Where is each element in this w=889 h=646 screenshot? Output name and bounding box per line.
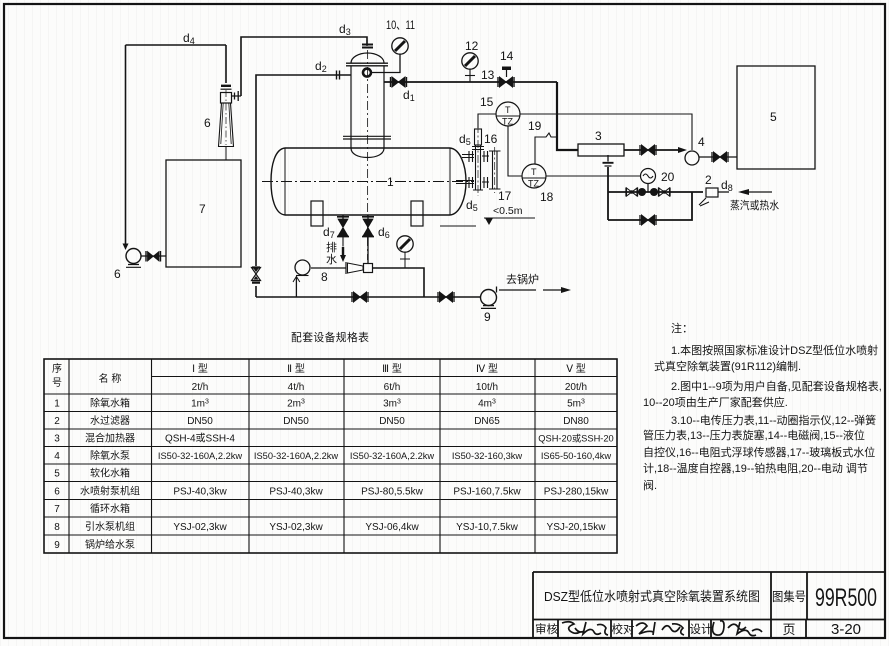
wire control valve line [608,191,703,193]
wire pump8 suction branch [293,277,300,298]
svg-text:混合加热器: 混合加热器 [85,432,135,445]
bypass valve [640,215,656,225]
wire level instrument to pump4 [520,114,692,150]
pressure gauge 10,11 [372,18,416,73]
wire steam riser [607,167,609,220]
svg-text:6: 6 [54,487,60,498]
svg-text:18: 18 [540,190,554,204]
svg-text:PSJ-40,3kw: PSJ-40,3kw [173,487,227,498]
temperature controller 18 [522,164,554,204]
circulating tank 7 [166,160,241,267]
svg-text:PSJ-280,15kw: PSJ-280,15kw [544,487,609,498]
svg-text:1: 1 [387,175,394,189]
pressure gauge 12 with cock 13 [462,39,495,82]
svg-text:d3: d3 [339,22,351,37]
svg-text:d5: d5 [459,132,471,147]
valve d7 [323,217,349,240]
wire ejector to tank7 [225,147,227,161]
drain arrow under d7 [340,247,346,262]
wire gauge8 stem [400,252,410,268]
svg-text:循环水箱: 循环水箱 [90,502,130,515]
svg-text:TZ: TZ [528,179,539,189]
wire pump9 discharge [499,289,536,291]
svg-text:TZ: TZ [502,117,513,127]
svg-text:水喷射泵机组: 水喷射泵机组 [80,485,140,498]
wire pump6 to tank7 [141,255,166,257]
svg-text:引水泵机组: 引水泵机组 [85,520,135,533]
wire d4 horizontal [126,44,227,46]
svg-text:7: 7 [54,504,60,515]
svg-text:16: 16 [484,132,498,146]
gauge glass 17 [456,147,512,213]
steam label [730,198,779,212]
valve on left drop [252,268,261,283]
notes text [643,321,882,492]
deaerator tank 1 [262,148,474,215]
svg-text:DN65: DN65 [474,416,500,427]
svg-text:页: 页 [782,622,795,637]
svg-text:3m3: 3m3 [383,399,401,410]
svg-text:计,18--温度自控器,19--铂热电阻,20--电动 调节: 计,18--温度自控器,19--铂热电阻,20--电动 调节 [643,461,868,475]
union on d2 [315,59,340,80]
boiler feed pump 9 [481,273,540,324]
wire d6 drain [367,215,369,264]
wire pump4 to tank5 [699,156,737,158]
svg-text:YSJ-02,3kw: YSJ-02,3kw [269,522,323,533]
svg-text:YSJ-06,4kw: YSJ-06,4kw [365,522,419,533]
svg-text:式真空除氧装置(91R112)编制.: 式真空除氧装置(91R112)编制. [654,359,801,373]
title block [533,572,885,638]
svg-text:DSZ型低位水喷射式真空除氧装置系统图: DSZ型低位水喷射式真空除氧装置系统图 [544,589,760,604]
water filter 2 [699,173,733,206]
svg-text:3-20: 3-20 [831,621,861,638]
wire d3 from ejector to column top [241,37,367,96]
valve pump6 outlet [146,251,161,262]
svg-text:PSJ-80,5.5kw: PSJ-80,5.5kw [361,487,423,498]
solenoid valve 14 [498,49,514,87]
svg-text:图集号: 图集号 [772,589,806,604]
svg-text:YSJ-02,3kw: YSJ-02,3kw [173,522,227,533]
svg-text:号: 号 [52,377,62,389]
svg-text:注：: 注： [671,321,693,335]
svg-text:管压力表,13--压力表旋塞,14--电磁阀,15--液位: 管压力表,13--压力表旋塞,14--电磁阀,15--液位 [643,428,865,442]
svg-text:d7: d7 [323,225,335,240]
svg-text:PSJ-40,3kw: PSJ-40,3kw [269,487,323,498]
priming pump 8 [295,260,328,284]
svg-text:d8: d8 [721,178,733,193]
deaerator column of tank 1 [343,40,391,260]
pipe labels d3 d4 [183,22,351,46]
svg-text:名 称: 名 称 [99,372,122,385]
svg-text:5: 5 [770,110,777,124]
wire instrument15 to line18 [508,126,522,176]
wire heater to pump4 [624,147,687,153]
svg-text:IS50-32-160A,2.2kw: IS50-32-160A,2.2kw [350,451,435,461]
svg-text:阀.: 阀. [643,478,657,492]
tank saddle supports [311,201,423,226]
mixing heater 3 [578,129,624,156]
svg-text:15: 15 [480,95,494,109]
svg-text:排: 排 [326,240,337,254]
svg-text:20t/h: 20t/h [565,382,587,393]
wire heater drain flange [603,155,614,166]
svg-text:Ⅰ 型: Ⅰ 型 [192,362,208,375]
svg-text:d2: d2 [315,59,327,74]
svg-text:水过滤器: 水过滤器 [90,414,130,427]
svg-text:99R500: 99R500 [815,584,877,612]
wire to boiler arrow [543,287,571,293]
equipment table [44,330,617,553]
svg-text:d6: d6 [378,225,390,240]
ground level mark [440,205,535,226]
svg-text:QSH-4或SSH-4: QSH-4或SSH-4 [165,433,235,445]
svg-text:d1: d1 [403,88,415,103]
softened water tank 5 [737,66,815,169]
svg-text:序: 序 [52,362,62,375]
jet nozzle and mixer [346,262,373,274]
svg-text:17: 17 [498,189,512,203]
svg-text:DN80: DN80 [563,416,589,427]
wire d2 from column to left drop [256,75,351,266]
svg-text:10t/h: 10t/h [476,382,498,393]
svg-text:YSJ-20,15kw: YSJ-20,15kw [547,522,607,533]
svg-text:2: 2 [705,173,712,187]
wire mixer to drop [373,268,424,297]
wire instrument18 to valve20 [546,175,641,177]
svg-text:5: 5 [54,469,60,480]
svg-text:除氧水泵: 除氧水泵 [90,449,130,462]
signature squiggles [562,621,762,636]
svg-text:4t/h: 4t/h [288,382,305,393]
svg-text:PSJ-160,7.5kw: PSJ-160,7.5kw [453,487,521,498]
svg-text:9: 9 [484,310,491,324]
svg-text:2.图中1--9项为用户自备,见配套设备规格表,: 2.图中1--9项为用户自备,见配套设备规格表, [671,379,882,393]
svg-text:19: 19 [528,119,542,133]
wire pump8 discharge to nozzle [311,267,346,269]
wire pump6 suction vertical [123,45,129,250]
svg-text:13: 13 [481,68,495,82]
svg-text:3: 3 [595,129,602,143]
svg-text:2: 2 [54,416,60,427]
wire steam inlet arrow [738,189,772,195]
svg-text:Ⅲ 型: Ⅲ 型 [382,362,402,375]
valve d6 [362,217,390,240]
svg-text:1.本图按照国家标准设计DSZ型低位水喷射: 1.本图按照国家标准设计DSZ型低位水喷射 [671,343,878,357]
svg-text:2m3: 2m3 [287,399,305,410]
svg-text:3.10--电传压力表,11--动圈指示仪,12--弹簧: 3.10--电传压力表,11--动圈指示仪,12--弹簧 [671,413,876,427]
svg-text:锅炉给水泵: 锅炉给水泵 [85,538,135,551]
svg-text:去锅炉: 去锅炉 [506,273,539,286]
svg-text:软化水箱: 软化水箱 [90,467,130,480]
valve left of control valve [626,188,638,197]
svg-text:配套设备规格表: 配套设备规格表 [291,330,369,344]
valve between pump4 and tank5 [712,152,728,162]
svg-text:T: T [505,105,511,115]
svg-text:DN50: DN50 [187,416,213,427]
float sensor 16 [459,125,498,196]
svg-text:T: T [531,167,537,177]
svg-text:蒸汽或热水: 蒸汽或热水 [730,198,779,212]
svg-text:2t/h: 2t/h [192,382,209,393]
wire box2 outlet [718,191,729,193]
RTD 19 label [528,119,542,133]
level controller 15 [480,95,520,127]
svg-text:3: 3 [54,434,60,445]
svg-text:设计: 设计 [690,623,713,636]
svg-text:8: 8 [321,270,328,284]
svg-text:QSH-20或SSH-20: QSH-20或SSH-20 [538,433,613,444]
svg-text:除氧水箱: 除氧水箱 [90,397,130,410]
wire drop to heater [557,82,578,150]
svg-text:6: 6 [114,267,121,281]
svg-text:Ⅱ 型: Ⅱ 型 [287,362,305,375]
svg-text:<0.5m: <0.5m [493,205,523,217]
pressure gauge near pump8 [397,236,413,252]
svg-text:IS50-32-160A,2.2kw: IS50-32-160A,2.2kw [158,451,243,461]
svg-text:d5: d5 [466,198,478,213]
wire d4 drop to ejector [225,45,227,83]
svg-text:校对: 校对 [612,622,635,636]
circulating pump 6 [114,249,141,282]
svg-text:9: 9 [54,540,60,551]
svg-text:20: 20 [661,170,675,184]
svg-text:14: 14 [500,49,514,63]
water jet ejector 6 [204,86,241,147]
valve on d1 [391,77,415,103]
pump 4 [685,135,705,165]
svg-text:IS50-32-160,3kw: IS50-32-160,3kw [452,451,523,461]
svg-text:4m3: 4m3 [478,399,496,410]
wire level instrument to sensor16 [478,114,496,128]
drain text [326,240,337,266]
wire left drop to bottom header [255,286,257,297]
valve right of control valve [659,188,671,197]
svg-text:6: 6 [204,116,211,130]
svg-text:6t/h: 6t/h [384,382,401,393]
svg-text:水: 水 [326,253,337,266]
wire bottom header [256,296,481,298]
svg-text:DN50: DN50 [283,416,309,427]
svg-text:IS65-50-160,4kw: IS65-50-160,4kw [541,451,612,461]
svg-text:4: 4 [54,451,60,462]
svg-text:Ⅳ 型: Ⅳ 型 [476,362,498,375]
svg-text:10--20项由生产厂家配套供应.: 10--20项由生产厂家配套供应. [643,395,788,409]
svg-text:DN50: DN50 [379,416,405,427]
wire bypass line [608,192,692,220]
wire valve20 stem [647,183,649,192]
svg-text:10、11: 10、11 [386,18,415,32]
wire d1 main line [384,81,557,83]
svg-text:YSJ-10,7.5kw: YSJ-10,7.5kw [456,522,518,533]
wire RTD19 link [535,133,557,164]
wire d7 drain [342,215,344,247]
svg-text:8: 8 [54,522,60,533]
svg-text:Ⅴ 型: Ⅴ 型 [566,362,586,375]
valve on bottom header right [438,292,454,302]
svg-text:5m3: 5m3 [567,399,585,410]
svg-text:审核: 审核 [535,622,558,636]
svg-text:12: 12 [465,39,479,53]
svg-text:1m3: 1m3 [191,399,209,410]
svg-text:1: 1 [54,399,60,410]
electric control valve 20 [638,169,675,197]
valve after heater 3 [640,145,656,155]
svg-text:IS50-32-160A,2.2kw: IS50-32-160A,2.2kw [254,451,339,461]
svg-text:7: 7 [199,202,206,216]
svg-text:4: 4 [698,135,705,149]
svg-text:d4: d4 [183,31,195,46]
svg-text:自控仪,16--电阻式浮球传感器,17--玻璃板式水位: 自控仪,16--电阻式浮球传感器,17--玻璃板式水位 [643,445,875,459]
valve on bottom header left [352,292,368,302]
